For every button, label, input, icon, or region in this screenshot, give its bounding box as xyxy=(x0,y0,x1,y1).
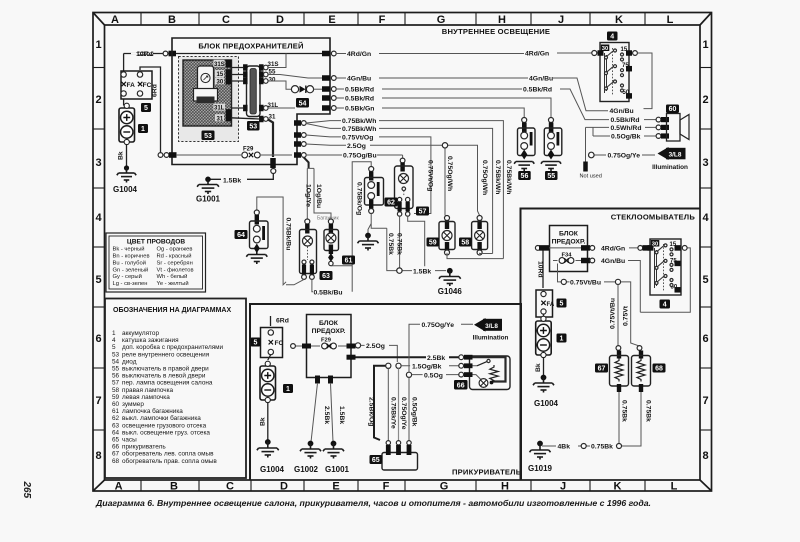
svg-text:30: 30 xyxy=(652,242,658,248)
svg-text:265: 265 xyxy=(21,481,32,499)
washer nozzle heater 67 xyxy=(595,351,629,393)
svg-text:J: J xyxy=(560,481,566,493)
svg-text:15: 15 xyxy=(670,242,677,248)
wire 4Rd/Gn row xyxy=(336,51,592,59)
ground G1004 washer xyxy=(533,375,559,408)
svg-text:ОБОЗНАЧЕНИЯ НА ДИАГРАММАХ: ОБОЗНАЧЕНИЯ НА ДИАГРАММАХ xyxy=(113,307,231,314)
svg-text:2: 2 xyxy=(702,94,708,106)
wire 4Rd/Gn washer xyxy=(535,245,650,252)
svg-text:C: C xyxy=(226,481,234,493)
ground under 64 xyxy=(246,252,267,264)
svg-text:75: 75 xyxy=(622,63,629,69)
svg-text:1: 1 xyxy=(112,330,116,337)
svg-text:0.5Bk/Rd: 0.5Bk/Rd xyxy=(345,96,374,103)
svg-text:реле внутреннего освещения: реле внутреннего освещения xyxy=(122,351,210,358)
label 66 xyxy=(454,380,468,390)
svg-text:C: C xyxy=(222,14,230,26)
svg-text:0.75Bk/Og: 0.75Bk/Og xyxy=(356,182,363,215)
svg-text:58: 58 xyxy=(461,240,469,247)
wire 2.5Og xyxy=(355,343,397,362)
wire 0.75Vt/Bu down xyxy=(610,285,621,351)
svg-text:F: F xyxy=(383,481,390,493)
svg-text:0.5Bk/Gn: 0.5Bk/Gn xyxy=(345,106,374,113)
svg-text:Illumination: Illumination xyxy=(473,335,509,342)
not used stub xyxy=(580,127,602,179)
lighter section box xyxy=(250,304,522,480)
wire 59 bottom xyxy=(447,253,503,259)
border frame outer xyxy=(93,13,712,492)
svg-text:0.75Vt/Bu: 0.75Vt/Bu xyxy=(570,279,601,286)
svg-text:Gn - зеленый: Gn - зеленый xyxy=(113,266,149,273)
svg-text:0.75Bk/Ye: 0.75Bk/Ye xyxy=(390,397,397,429)
svg-text:A: A xyxy=(111,14,119,26)
svg-text:0.5Og: 0.5Og xyxy=(424,372,443,379)
svg-text:H: H xyxy=(498,14,506,26)
svg-text:65: 65 xyxy=(112,437,120,444)
svg-text:66: 66 xyxy=(112,444,120,451)
svg-text:обогреватель прав. сопла омыв: обогреватель прав. сопла омыв xyxy=(122,457,217,465)
svg-text:БЛОК ПРЕДОХРАНИТЕЛЕЙ: БЛОК ПРЕДОХРАНИТЕЛЕЙ xyxy=(198,42,303,51)
wire 4Rd/Gn bus inside box xyxy=(176,53,322,55)
svg-text:G1004: G1004 xyxy=(534,399,559,408)
wire 2.5Bk/Og bracket xyxy=(367,366,385,440)
svg-text:FC: FC xyxy=(275,340,284,347)
ground G1004 lower xyxy=(257,439,285,474)
svg-text:61: 61 xyxy=(345,258,353,265)
svg-text:2.5Og: 2.5Og xyxy=(347,143,366,150)
svg-text:аккумулятор: аккумулятор xyxy=(122,330,159,337)
svg-text:30: 30 xyxy=(269,77,276,84)
svg-text:G: G xyxy=(437,14,446,26)
svg-text:3: 3 xyxy=(702,157,708,169)
svg-text:67: 67 xyxy=(112,451,120,458)
svg-text:4Bk: 4Bk xyxy=(558,444,571,451)
wire 2.5Og row xyxy=(306,143,488,216)
svg-text:выкл. освещение груз. отсека: выкл. освещение груз. отсека xyxy=(122,429,210,436)
svg-text:68: 68 xyxy=(655,366,663,373)
relay 53 hatched area xyxy=(179,57,239,142)
svg-text:0.75Og/Bu: 0.75Og/Bu xyxy=(343,153,377,160)
svg-text:58: 58 xyxy=(112,387,120,394)
svg-text:G1004: G1004 xyxy=(260,465,285,474)
svg-text:1: 1 xyxy=(286,386,290,393)
svg-text:ПРЕДОХР.: ПРЕДОХР. xyxy=(312,328,346,335)
svg-text:6Rd: 6Rd xyxy=(276,318,289,325)
svg-text:обогреватель лев. сопла омыв: обогреватель лев. сопла омыв xyxy=(122,450,214,458)
svg-text:1.5Og/Bk: 1.5Og/Bk xyxy=(412,363,442,370)
wire 31 down xyxy=(210,120,276,185)
svg-text:5: 5 xyxy=(144,105,148,112)
cigarette lighter 66 xyxy=(459,355,510,390)
svg-text:0.75Bk: 0.75Bk xyxy=(396,233,403,255)
svg-text:30: 30 xyxy=(602,46,608,52)
grid letters bottom xyxy=(115,481,678,493)
cargo bay lamp 63 xyxy=(300,219,333,280)
svg-text:66: 66 xyxy=(457,383,465,390)
fuse box 5 FA washer xyxy=(536,290,567,317)
svg-text:2.5Og: 2.5Og xyxy=(366,343,385,350)
svg-text:FC: FC xyxy=(143,82,152,89)
fuse block box (BLOK PREDOHRANITELEY) xyxy=(172,38,330,165)
grid row ticks xyxy=(93,68,712,431)
svg-text:прикуриватель: прикуриватель xyxy=(122,444,166,451)
svg-text:D: D xyxy=(280,481,288,493)
wire 58 bottom xyxy=(480,252,493,255)
svg-text:0.5Bk/Bu: 0.5Bk/Bu xyxy=(314,290,343,297)
clock 60 xyxy=(656,105,689,142)
svg-text:освещение грузового отсека: освещение грузового отсека xyxy=(122,422,207,429)
svg-text:ВНУТРЕННЕЕ ОСВЕЩЕНИЕ: ВНУТРЕННЕЕ ОСВЕЩЕНИЕ xyxy=(442,27,550,36)
washer nozzle heater 68 xyxy=(632,351,666,393)
svg-text:3: 3 xyxy=(95,157,101,169)
svg-text:ПРИКУРИВАТЕЛЬ: ПРИКУРИВАТЕЛЬ xyxy=(452,468,522,477)
svg-text:6: 6 xyxy=(702,333,708,345)
svg-text:Sr - серебрян: Sr - серебрян xyxy=(157,260,193,266)
battery 1 washer xyxy=(535,314,567,376)
svg-text:5: 5 xyxy=(560,301,564,308)
svg-text:J: J xyxy=(558,14,564,26)
door switch 55 xyxy=(541,118,562,181)
svg-text:0.75Vt/Og: 0.75Vt/Og xyxy=(342,134,373,141)
color codes box xyxy=(106,233,206,292)
wire 1.5Bk to G1046 xyxy=(387,228,446,275)
svg-text:1: 1 xyxy=(702,39,708,51)
svg-text:1.5Bk: 1.5Bk xyxy=(338,406,345,424)
ground G1001 xyxy=(196,177,221,204)
illumination arrow 3/L8 lower xyxy=(473,318,509,342)
svg-text:Диаграмма 6. Внутреннее освеще: Диаграмма 6. Внутреннее освещение салона… xyxy=(95,498,651,508)
svg-text:63: 63 xyxy=(112,422,120,429)
svg-text:4Gn/Bu: 4Gn/Bu xyxy=(610,108,634,115)
illumination arrow 3/L8 top xyxy=(589,147,689,171)
svg-text:55: 55 xyxy=(547,173,555,180)
svg-text:4: 4 xyxy=(663,302,667,309)
fuse block right upper pins xyxy=(322,51,336,111)
svg-text:правая лампочка: правая лампочка xyxy=(122,387,173,394)
wire 0.5Og/Bk down xyxy=(409,377,417,441)
svg-text:2: 2 xyxy=(95,94,101,106)
svg-text:0.75Vt/Og: 0.75Vt/Og xyxy=(426,160,433,191)
trunk lamp switch 62 xyxy=(352,162,397,292)
ground G1046 xyxy=(438,268,463,296)
wire 0.75Og/Bu row xyxy=(306,153,655,160)
svg-text:59: 59 xyxy=(429,240,437,247)
svg-text:FA: FA xyxy=(127,82,136,89)
wire 0.75Vt/Bu row xyxy=(558,264,621,287)
svg-text:A: A xyxy=(115,481,123,493)
svg-text:5: 5 xyxy=(254,340,258,347)
svg-text:3/L8: 3/L8 xyxy=(485,323,498,330)
svg-text:65: 65 xyxy=(372,457,380,464)
svg-text:8: 8 xyxy=(95,450,101,462)
wire 31L xyxy=(268,107,295,109)
illumination feed xyxy=(409,322,473,372)
wire 57 right return xyxy=(387,216,425,266)
svg-text:62: 62 xyxy=(112,415,120,422)
svg-text:7: 7 xyxy=(95,395,101,407)
svg-text:1.5Bk: 1.5Bk xyxy=(413,268,431,275)
svg-text:0.75Bk/Wh: 0.75Bk/Wh xyxy=(342,126,376,133)
svg-text:67: 67 xyxy=(598,366,606,373)
svg-text:1Og/Bu: 1Og/Bu xyxy=(315,184,322,208)
svg-text:БЛОК: БЛОК xyxy=(559,231,579,238)
svg-text:0.75Vt: 0.75Vt xyxy=(623,305,630,326)
ground under 62 xyxy=(358,233,379,251)
svg-text:4Gn/Bu: 4Gn/Bu xyxy=(601,258,625,265)
svg-text:B: B xyxy=(168,14,176,26)
svg-text:левая лампочка: левая лампочка xyxy=(122,394,170,401)
svg-text:0.5Bk/Rd: 0.5Bk/Rd xyxy=(345,87,374,94)
svg-text:1: 1 xyxy=(141,126,145,133)
svg-text:4: 4 xyxy=(95,212,102,224)
svg-text:4Gn/Bu: 4Gn/Bu xyxy=(529,76,553,83)
svg-text:2.5Bk/Og: 2.5Bk/Og xyxy=(367,397,374,426)
legend box xyxy=(105,299,246,479)
svg-text:68: 68 xyxy=(112,458,120,465)
svg-text:Lg - св-зелен: Lg - св-зелен xyxy=(113,281,148,287)
svg-text:Rd - красный: Rd - красный xyxy=(157,253,192,260)
svg-text:Vt - фиолетов: Vt - фиолетов xyxy=(157,267,194,273)
wire 4Bk 0.75Bk bottom xyxy=(542,444,613,451)
svg-text:G1001: G1001 xyxy=(196,195,221,204)
grid letters top xyxy=(111,14,674,26)
fuse box BLOK PREDOHR washer xyxy=(550,226,588,272)
svg-text:K: K xyxy=(614,481,622,493)
svg-text:0.75Og/Ye: 0.75Og/Ye xyxy=(608,153,641,160)
wire 0.75Bk/Wh row 2 xyxy=(306,124,501,254)
wire 0.75Bk/Wh row 1 xyxy=(306,118,512,259)
svg-text:31L: 31L xyxy=(214,106,225,112)
wire 0.5Og xyxy=(406,372,458,379)
svg-text:H: H xyxy=(501,481,509,493)
ignition switch 4 washer xyxy=(648,239,688,309)
svg-text:ЦВЕТ ПРОВОДОВ: ЦВЕТ ПРОВОДОВ xyxy=(127,239,185,246)
svg-text:0.75Bk/Bu: 0.75Bk/Bu xyxy=(285,218,292,251)
svg-text:8: 8 xyxy=(702,450,708,462)
svg-text:31: 31 xyxy=(217,116,224,122)
svg-text:0.75Bk/Wh: 0.75Bk/Wh xyxy=(505,160,512,194)
wire 2.5Bk row xyxy=(356,354,459,362)
wire 10Rd xyxy=(124,51,176,59)
svg-text:выкл. лампочки багажника: выкл. лампочки багажника xyxy=(122,414,201,422)
svg-text:0.5Og/Bk: 0.5Og/Bk xyxy=(410,397,417,427)
svg-text:1: 1 xyxy=(95,39,101,51)
svg-text:4Rd/Gn: 4Rd/Gn xyxy=(347,51,371,58)
fuse F34 xyxy=(553,253,590,264)
svg-text:63: 63 xyxy=(322,273,330,280)
wire 4Gn/Bu row xyxy=(336,76,608,111)
svg-text:0.75Og/Ye: 0.75Og/Ye xyxy=(422,322,455,329)
ground G1004 xyxy=(113,165,138,194)
ground G1001 lower xyxy=(323,441,350,474)
svg-text:E: E xyxy=(332,481,339,493)
fuse box BLOK PREDOHR lower xyxy=(291,315,356,384)
svg-text:доп. коробка с предохранителям: доп. коробка с предохранителями xyxy=(122,343,224,351)
svg-text:B: B xyxy=(170,481,178,493)
svg-text:0.5Bk/Rd: 0.5Bk/Rd xyxy=(611,117,640,124)
svg-text:часы: часы xyxy=(122,437,137,444)
svg-text:БЛОК: БЛОК xyxy=(319,320,339,327)
svg-text:Og - оранжев: Og - оранжев xyxy=(157,247,193,253)
svg-text:4Rd/Gn: 4Rd/Gn xyxy=(601,245,625,252)
wire 0.5Bk/Rd row 1 xyxy=(336,87,609,120)
svg-text:0.75Bk/Wh: 0.75Bk/Wh xyxy=(342,118,376,125)
dome lamp 57 xyxy=(395,155,430,216)
grid column ticks xyxy=(141,13,645,492)
svg-text:Bk: Bk xyxy=(118,151,125,160)
svg-text:54: 54 xyxy=(112,358,120,365)
wire 6Rd lower xyxy=(271,316,289,326)
grid numbers left xyxy=(95,39,102,462)
wire 4Gn/Bu washer xyxy=(590,248,690,312)
ground G1019 xyxy=(528,441,553,473)
fuse box 5 (FA FC) xyxy=(121,71,152,112)
svg-text:57: 57 xyxy=(419,209,427,216)
svg-text:Illumination: Illumination xyxy=(652,164,688,171)
wire 1Og/Bu 1Og/Ye split xyxy=(304,157,340,221)
wire 0.75Bk heater returns xyxy=(617,392,652,449)
svg-text:1: 1 xyxy=(560,336,564,343)
svg-text:Not used: Not used xyxy=(580,174,602,180)
svg-text:0.5Og/Bk: 0.5Og/Bk xyxy=(611,134,641,141)
wire 0.5Bk/Bu xyxy=(286,279,346,296)
svg-text:0.75Bk: 0.75Bk xyxy=(591,444,613,451)
svg-text:G1019: G1019 xyxy=(528,464,553,473)
wire 55 to row xyxy=(268,75,322,79)
svg-text:Bn - коричнев: Bn - коричнев xyxy=(113,254,150,260)
washer section box xyxy=(521,209,701,481)
svg-text:61: 61 xyxy=(112,408,120,415)
wire 1.5Bk to G1001 xyxy=(331,383,345,442)
wire 4Gn/Bu label xyxy=(610,108,634,115)
svg-text:пер. лампа освещения салона: пер. лампа освещения салона xyxy=(122,380,213,387)
svg-text:54: 54 xyxy=(299,101,307,108)
svg-text:1.5Bk: 1.5Bk xyxy=(223,177,241,184)
svg-text:ПРЕДОХР.: ПРЕДОХР. xyxy=(552,239,586,246)
svg-text:0.75Bk: 0.75Bk xyxy=(620,400,627,422)
svg-text:6: 6 xyxy=(95,333,101,345)
grid numbers right xyxy=(702,39,709,462)
svg-text:64: 64 xyxy=(237,232,245,239)
svg-text:СТЕКЛООМЫВАТЕЛЬ: СТЕКЛООМЫВАТЕЛЬ xyxy=(611,213,696,222)
wire 62 to ground and 1.5Bk xyxy=(368,214,387,234)
fuse block right lower pins xyxy=(294,120,306,147)
svg-text:5: 5 xyxy=(112,344,116,351)
wire 0.5Bk/Rd row 2 xyxy=(336,96,551,118)
wire 0.5Og/Bk xyxy=(593,127,656,140)
svg-text:31S: 31S xyxy=(214,62,225,68)
svg-text:30: 30 xyxy=(217,79,224,85)
svg-text:лампочка багажника: лампочка багажника xyxy=(122,407,183,415)
wire 10Rd washer xyxy=(537,251,544,289)
svg-text:FA: FA xyxy=(547,302,555,308)
svg-text:F: F xyxy=(379,14,386,26)
svg-text:53: 53 xyxy=(112,351,120,358)
svg-text:0.5Wh/Rd: 0.5Wh/Rd xyxy=(611,125,642,132)
wire 2.5Bk to G1002 xyxy=(311,383,330,442)
wire 57 left to G1046 xyxy=(396,216,403,268)
svg-text:60: 60 xyxy=(112,401,120,408)
clock 65 xyxy=(370,441,418,470)
svg-text:4: 4 xyxy=(112,337,116,344)
svg-text:L: L xyxy=(671,481,678,493)
wire 0.75Vt down xyxy=(621,282,642,351)
svg-text:2.5Bk: 2.5Bk xyxy=(323,406,330,424)
diode 54 xyxy=(268,81,322,108)
svg-text:55: 55 xyxy=(112,366,120,373)
svg-text:0.75Bk: 0.75Bk xyxy=(644,400,651,422)
svg-text:0.75Bk/Wh: 0.75Bk/Wh xyxy=(494,160,501,194)
svg-text:53: 53 xyxy=(249,124,257,131)
ground G1002 xyxy=(294,441,321,474)
wire 0.5Wh/Rd xyxy=(586,125,657,132)
svg-text:31S: 31S xyxy=(268,61,279,68)
wire 0.75Vt/Og row xyxy=(306,134,433,213)
svg-text:Bk - черный: Bk - черный xyxy=(113,246,145,253)
wire 61 bottom xyxy=(331,265,352,267)
svg-text:K: K xyxy=(615,14,623,26)
lower box output pins xyxy=(347,355,356,360)
battery 1 lower xyxy=(260,355,294,442)
svg-text:L: L xyxy=(667,14,674,26)
svg-text:56: 56 xyxy=(521,173,529,180)
wire 0.5Bk/Gn row xyxy=(336,106,524,118)
svg-text:5: 5 xyxy=(95,274,101,286)
wire 31S to bus xyxy=(268,54,286,68)
lamp 58 xyxy=(459,216,488,256)
wire 6Rd vertical xyxy=(124,54,163,158)
svg-text:выключатель в левой двери: выключатель в левой двери xyxy=(122,372,206,380)
svg-text:64: 64 xyxy=(112,429,120,436)
svg-text:G1004: G1004 xyxy=(113,185,138,194)
svg-text:G1046: G1046 xyxy=(438,287,463,296)
svg-text:0.75Vt/Bu: 0.75Vt/Bu xyxy=(610,298,617,329)
wire 0.75Bk/Ye down xyxy=(388,368,396,441)
wire 0.5Bk/Rd to 60 xyxy=(611,117,657,124)
svg-text:F29: F29 xyxy=(321,338,332,344)
svg-text:Wh - белый: Wh - белый xyxy=(157,273,188,280)
fuse box 5 FC lower xyxy=(251,328,284,358)
cargo light switch 64 xyxy=(235,197,292,285)
svg-text:4: 4 xyxy=(702,212,709,224)
ignition switch 4 xyxy=(592,32,652,109)
svg-text:G1001: G1001 xyxy=(325,465,350,474)
svg-text:0.75Bk: 0.75Bk xyxy=(387,233,394,255)
svg-text:62: 62 xyxy=(387,200,395,207)
svg-text:Bu - голубой: Bu - голубой xyxy=(113,259,146,266)
svg-text:зуммер: зуммер xyxy=(122,401,144,408)
svg-text:1Og/Ye: 1Og/Ye xyxy=(304,184,311,207)
svg-text:Bk: Bk xyxy=(535,363,542,372)
door switch 56 xyxy=(514,118,535,181)
svg-text:57: 57 xyxy=(112,380,120,387)
svg-text:56: 56 xyxy=(112,373,120,380)
svg-text:15: 15 xyxy=(621,47,628,53)
svg-text:0.75Og/Wh: 0.75Og/Wh xyxy=(446,156,453,191)
svg-text:катушка зажигания: катушка зажигания xyxy=(122,337,179,344)
fuse F29 xyxy=(164,147,306,158)
svg-text:0.5Bk/Rd: 0.5Bk/Rd xyxy=(523,87,552,94)
svg-text:4: 4 xyxy=(610,34,614,41)
svg-text:2.5Bk: 2.5Bk xyxy=(427,355,445,362)
svg-text:59: 59 xyxy=(112,394,120,401)
svg-text:60: 60 xyxy=(669,106,677,113)
svg-text:Gy - серый: Gy - серый xyxy=(113,273,142,280)
svg-text:E: E xyxy=(328,14,335,26)
svg-text:D: D xyxy=(276,14,284,26)
svg-text:10Rd: 10Rd xyxy=(537,261,544,278)
svg-text:3/L8: 3/L8 xyxy=(669,152,682,159)
